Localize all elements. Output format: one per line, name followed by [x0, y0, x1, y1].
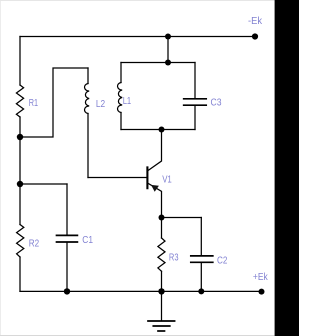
svg-text:C2: C2 [217, 255, 228, 266]
terminal node +Ek [259, 289, 265, 295]
svg-text:R2: R2 [29, 238, 40, 249]
wire: C3 top lead [194, 63, 196, 99]
wire: left rail upper (top rail to R1) [19, 37, 21, 86]
wire: R2 node to C1 branch [20, 183, 67, 185]
node: R3 / ground junction [158, 288, 164, 294]
svg-text:-Ek: -Ek [248, 16, 263, 27]
wire: left rail lower (R2 to bottom rail) [19, 257, 21, 291]
resistor R2 [17, 225, 24, 258]
resistor R1 [16, 85, 23, 117]
node: tank top junction [165, 60, 171, 66]
wire: emitter node to C2 branch [162, 217, 202, 219]
svg-text:V1: V1 [162, 174, 172, 185]
wire: R3 top lead [161, 218, 163, 239]
node: top rail / tank junction [165, 34, 171, 40]
svg-text:R3: R3 [169, 253, 179, 264]
node: C2 bottom junction [198, 288, 204, 294]
wire: C2 bottom lead [200, 263, 202, 291]
node: C1 bottom junction [64, 288, 70, 294]
wire: collector lead from tank bottom [148, 130, 161, 171]
transistor V1 emitter arrow [151, 185, 159, 192]
node: emitter junction [159, 215, 165, 221]
svg-text:R1: R1 [29, 98, 39, 109]
svg-text:L1: L1 [123, 96, 132, 107]
wire: bottom supply rail [20, 290, 262, 292]
wire: top supply rail [20, 36, 255, 38]
svg-text:L2: L2 [96, 99, 106, 110]
inductor L1 [118, 83, 123, 113]
transistor V1 base bar [146, 167, 148, 188]
wire: C1 bottom lead [66, 243, 68, 292]
wire: tank circuit top side [121, 62, 195, 64]
transistor V1 emitter lead [148, 184, 161, 218]
inductor L2 [85, 84, 90, 114]
wire: L1 top lead [120, 63, 122, 83]
resistor R3 [158, 238, 165, 271]
wire: tank circuit bottom side [121, 129, 195, 131]
node: R1 / L2 junction [17, 134, 23, 140]
svg-text:C1: C1 [82, 235, 93, 246]
wire: base lead to V1 [88, 177, 147, 179]
svg-text:C3: C3 [211, 97, 222, 108]
wire: R1 node to L2 branch [20, 68, 88, 137]
wire: L1 bottom lead [120, 113, 122, 130]
capacitor C1 [57, 235, 78, 242]
capacitor C2 [191, 256, 213, 262]
svg-text:+Ek: +Ek [253, 272, 269, 283]
ground [148, 291, 175, 331]
black panel right side [275, 0, 299, 336]
wire: left rail between R1 and R2 [19, 117, 21, 225]
wire: R3 bottom lead [161, 271, 163, 291]
wire: C2 top lead [200, 218, 202, 256]
terminal node -Ek [252, 33, 258, 39]
capacitor C3 [184, 99, 207, 105]
node: R2 / C1 junction [17, 181, 23, 187]
wire: C3 bottom lead [194, 106, 196, 130]
wire: L2 bottom lead down to base level [87, 114, 89, 178]
wire: L2 top lead [87, 68, 89, 84]
wire: vertical link top rail to tank top [167, 37, 169, 63]
wire: C1 top lead [66, 184, 68, 235]
node: tank bottom / collector junction [159, 127, 165, 133]
